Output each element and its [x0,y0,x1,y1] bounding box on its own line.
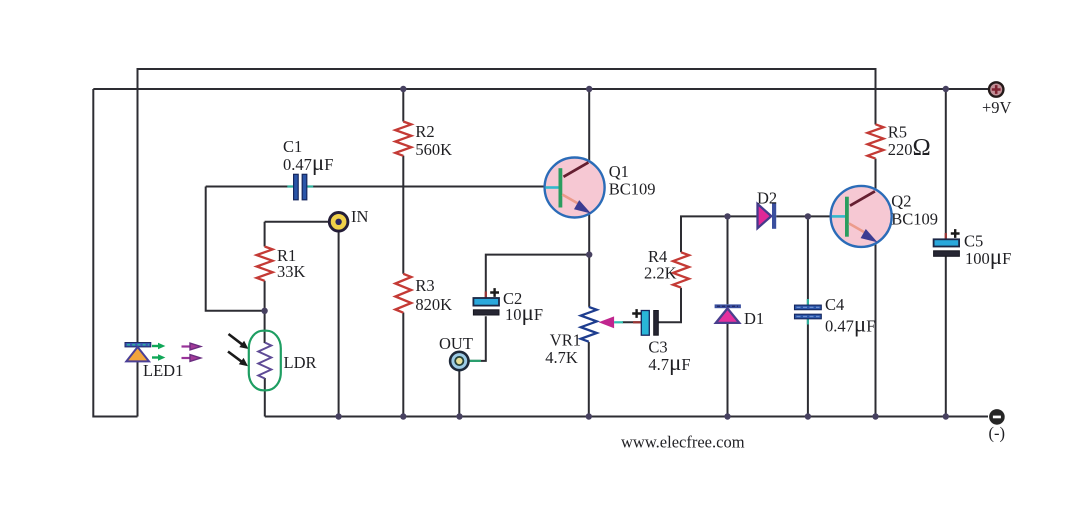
LED light arrow purple 1 [182,345,191,347]
svg-text:820K: 820K [415,295,452,314]
junction node C5 bottom [943,413,949,419]
wire C1 left down to LDR node [206,187,265,311]
resistor R5 [868,124,884,158]
LDR incident arrow 2 [228,352,242,362]
junction node R2 top [400,86,406,92]
wire IN down [338,230,340,417]
junction node R3 bottom [400,413,406,419]
wire C1 to Q1 base [206,186,547,188]
wire C4 bottom [807,319,809,417]
junction node VR1 bottom [586,413,592,419]
wire C5 column [945,89,947,417]
svg-text:+9V: +9V [982,98,1012,117]
LED1 symbol [125,343,151,347]
wire R2 R3 column [402,89,404,417]
capacitor C2 [485,292,487,298]
wire top rail (LED to R5) [138,69,876,342]
svg-text:www.elecfree.com: www.elecfree.com [621,433,745,452]
wire OUT down [458,371,460,417]
svg-text:OUT: OUT [439,334,473,353]
junction node Q2 emitter bottom [872,413,878,419]
LED light arrow green 2 [152,356,158,358]
terminal +9V [989,82,1003,96]
svg-text:(-): (-) [989,424,1005,443]
svg-text:2.2K: 2.2K [644,264,677,283]
wire left outer branch [93,89,137,417]
wire R5 to Q2 collector [875,159,877,193]
junction node C4 top [805,213,811,219]
diode D2 [758,204,772,228]
junction node D1 top [724,213,730,219]
wire Q1 emitter to VR1 [588,208,590,307]
junction node C4 bottom [805,413,811,419]
junction node D1 bottom [724,413,730,419]
wire C2 tee [486,255,589,298]
svg-text:D2: D2 [757,189,777,208]
svg-text:33K: 33K [277,262,306,281]
wire R4 top to D junction [681,216,758,252]
svg-text:BC109: BC109 [891,210,938,229]
potentiometer VR1 [581,307,597,342]
plus sign C5 [951,229,960,238]
plus sign C3 [632,309,641,318]
junction node C5 top [943,86,949,92]
junction node IN bottom [335,413,341,419]
svg-text:C5: C5 [964,232,983,251]
svg-text:C4: C4 [825,295,844,314]
svg-text:4.7K: 4.7K [545,348,578,367]
wire LDR bottom [264,378,266,417]
svg-text:C3: C3 [648,338,667,357]
transistor Q2 [831,186,892,247]
svg-text:D1: D1 [744,309,764,328]
resistor R3 [395,274,411,313]
terminal (-) [989,409,1005,425]
diode D1 [715,304,741,308]
capacitor C1 [287,185,313,187]
wire Q1 collector [588,89,590,165]
resistor R4 [673,252,689,287]
LDR incident arrow 1 [229,334,243,344]
svg-text:560K: 560K [415,140,452,159]
capacitor C3 [633,321,641,323]
wire C2 bottom to OUT [470,316,486,361]
VR1 wiper teal lead [614,321,623,323]
capacitor C5 [945,233,947,239]
svg-text:VR1: VR1 [550,331,581,350]
wire wiper to C3 [622,321,641,323]
transistor Q1 [545,158,605,218]
junction node C2/emitter [586,251,592,257]
svg-text:R5: R5 [888,123,907,142]
svg-text:BC109: BC109 [609,180,656,199]
junction node OUT bottom [456,413,462,419]
wire R1 leads [264,222,266,311]
wire node A to LDR top [264,311,266,343]
VR1 wiper arrow [599,316,615,328]
svg-text:Q2: Q2 [891,192,911,211]
wire +9V rail [93,88,988,90]
plus sign C2 [490,288,499,297]
wire VR1 bottom [588,342,590,417]
resistor R1 [257,247,273,281]
svg-text:Q1: Q1 [609,162,629,181]
wire Q2 emitter [875,238,877,417]
svg-text:IN: IN [351,207,368,226]
junction node Q1 collector [586,86,592,92]
junction node R1/LDR [261,308,267,314]
LED light arrow purple 2 [182,357,191,359]
svg-text:LDR: LDR [284,353,317,372]
LED light arrow green 1 [152,345,158,347]
wire IN link [265,221,331,223]
svg-text:R2: R2 [415,122,434,141]
svg-text:C1: C1 [283,137,302,156]
wire D1 branch [727,216,729,304]
svg-text:R3: R3 [415,276,434,295]
wire C4 branch [807,216,809,304]
wire bottom rail [265,416,988,418]
svg-text:LED1: LED1 [143,361,183,380]
wire D1 bottom [727,323,729,417]
connector IN [329,213,348,232]
wire C3 to R4 [658,288,681,323]
wire D2 cathode to Q2 base [776,215,833,217]
capacitor C4 [807,299,809,325]
LDR body [249,331,281,391]
resistor R2 [395,122,411,156]
connector OUT [450,352,481,370]
